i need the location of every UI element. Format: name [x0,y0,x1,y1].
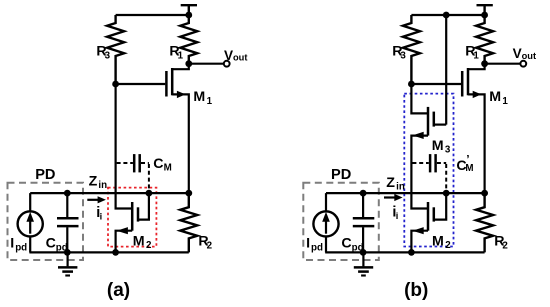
svg-text:Z: Z [386,175,395,191]
svg-text:pd: pd [352,242,364,253]
svg-text:M: M [489,89,501,105]
transistor M1 (b) [462,64,484,193]
svg-text:M: M [193,89,205,105]
svg-text:I: I [306,235,310,251]
VDD supply symbol (a) [181,5,197,15]
svg-text:1: 1 [207,96,213,107]
wire M1 gate to node A (b) [411,83,461,85]
svg-text:3: 3 [105,50,111,61]
junction dot ground symbol (a) [64,249,71,256]
svg-text:M: M [432,138,444,154]
capacitor CM (a) [117,154,149,191]
red dashed highlight box around M2 (a) [108,188,156,247]
svg-text:1: 1 [473,50,479,61]
bottom ground rail wire (b) [325,251,484,253]
wire to Vout terminal (b) [485,63,520,65]
current source Ipd (b) [313,193,338,252]
svg-text:(a): (a) [107,280,130,301]
svg-text:(b): (b) [404,280,428,301]
svg-text:2: 2 [207,240,213,251]
svg-text:’: ’ [466,153,469,167]
ground symbol (a) [58,252,77,275]
junction dot M1 source / R2 top (a) [185,190,192,197]
resistor R2 (a) [180,193,197,252]
svg-text:I: I [10,235,14,251]
node A dot R3 bottom (b) [408,81,415,88]
svg-text:M: M [164,163,172,174]
svg-text:out: out [522,51,536,61]
junction dot ground symbol (b) [360,249,367,256]
input current arrow ii (b) [384,194,403,201]
current source Ipd (a) [18,193,43,252]
capacitor Cpd (b) [353,193,375,252]
svg-text:V: V [513,46,522,61]
svg-text:M: M [133,233,145,249]
svg-text:pd: pd [15,242,27,253]
svg-text:Z: Z [89,174,98,190]
svg-text:3: 3 [400,50,406,61]
input node wire Zin (a) [30,192,189,194]
svg-text:out: out [233,53,247,63]
input node wire Zin (b) [326,192,485,194]
svg-text:2: 2 [502,240,508,251]
svg-text:1: 1 [502,96,508,107]
wire M1 gate to node A (a) [116,83,166,85]
svg-text:C: C [341,235,351,251]
junction dot Cpd top (b) [360,190,367,197]
junction dot Cpd top (a) [64,190,71,197]
resistor R2 (b) [476,193,493,252]
input current arrow ii (a) [87,196,106,203]
wire to Vout terminal (a) [189,63,224,65]
node dot R1 bottom / M1 drain (b) [481,60,488,67]
top supply rail wire (b) [411,14,484,16]
svg-text:PD: PD [331,167,351,183]
svg-text:2: 2 [445,240,451,251]
Vout terminal circle (a) [224,61,230,67]
junction dot supply rail (a) [185,12,192,19]
capacitor Cpd (a) [57,193,79,252]
junction dot M1 source / R2 top (b) [481,190,488,197]
junction dot M3 drain column at rail (b) [443,12,450,19]
ground symbol (b) [354,252,373,275]
node A vertical wire down to M2 gate (a) [116,84,132,209]
resistor R3 (b) [403,15,420,84]
svg-text:M: M [432,233,444,249]
resistor R1 (a) [180,15,197,64]
junction dot M2 drain at input line (b) [443,190,450,197]
node dot R1 bottom / M1 drain (a) [185,60,192,67]
capacitor C'M (b) [412,154,446,191]
junction dot M2 drain at input line (a) [146,190,153,197]
svg-text:i: i [100,212,103,222]
photodiode model box PD (a) [8,183,84,260]
resistor R3 (a) [107,15,124,84]
resistor R1 (b) [476,15,493,64]
photodiode model box PD (b) [303,183,379,260]
top supply rail wire (a) [116,14,189,16]
svg-text:in: in [98,180,107,191]
junction dot M2 source at rail (b) [408,249,415,256]
svg-text:C: C [153,156,163,172]
transistor M1 (a) [166,64,188,193]
svg-text:C: C [46,235,56,251]
Vout terminal circle (b) [520,61,526,67]
svg-text:1: 1 [178,50,184,61]
junction dot M2 source at rail (a) [112,249,119,256]
transistor M2 (b) [411,193,446,252]
svg-text:3: 3 [445,145,451,156]
blue dashed highlight box around M2 and M3 (b) [404,94,453,247]
svg-text:pd: pd [311,242,323,253]
node A dot R3 bottom (a) [112,81,119,88]
wire M3 drain to supply rail (b) [445,15,447,125]
transistor M3 (b) [411,107,446,209]
VDD supply symbol (b) [477,5,493,15]
transistor M2 (a) [116,193,149,252]
svg-text:pd: pd [56,242,68,253]
svg-text:PD: PD [35,167,55,183]
svg-text:2: 2 [146,240,152,251]
svg-text:i: i [396,211,399,221]
node A vertical wire down to M3 gate (b) [411,84,427,113]
junction dot supply rail (b) [481,12,488,19]
svg-text:in: in [396,182,405,193]
svg-text:V: V [224,48,233,63]
bottom ground rail wire (a) [29,251,188,253]
